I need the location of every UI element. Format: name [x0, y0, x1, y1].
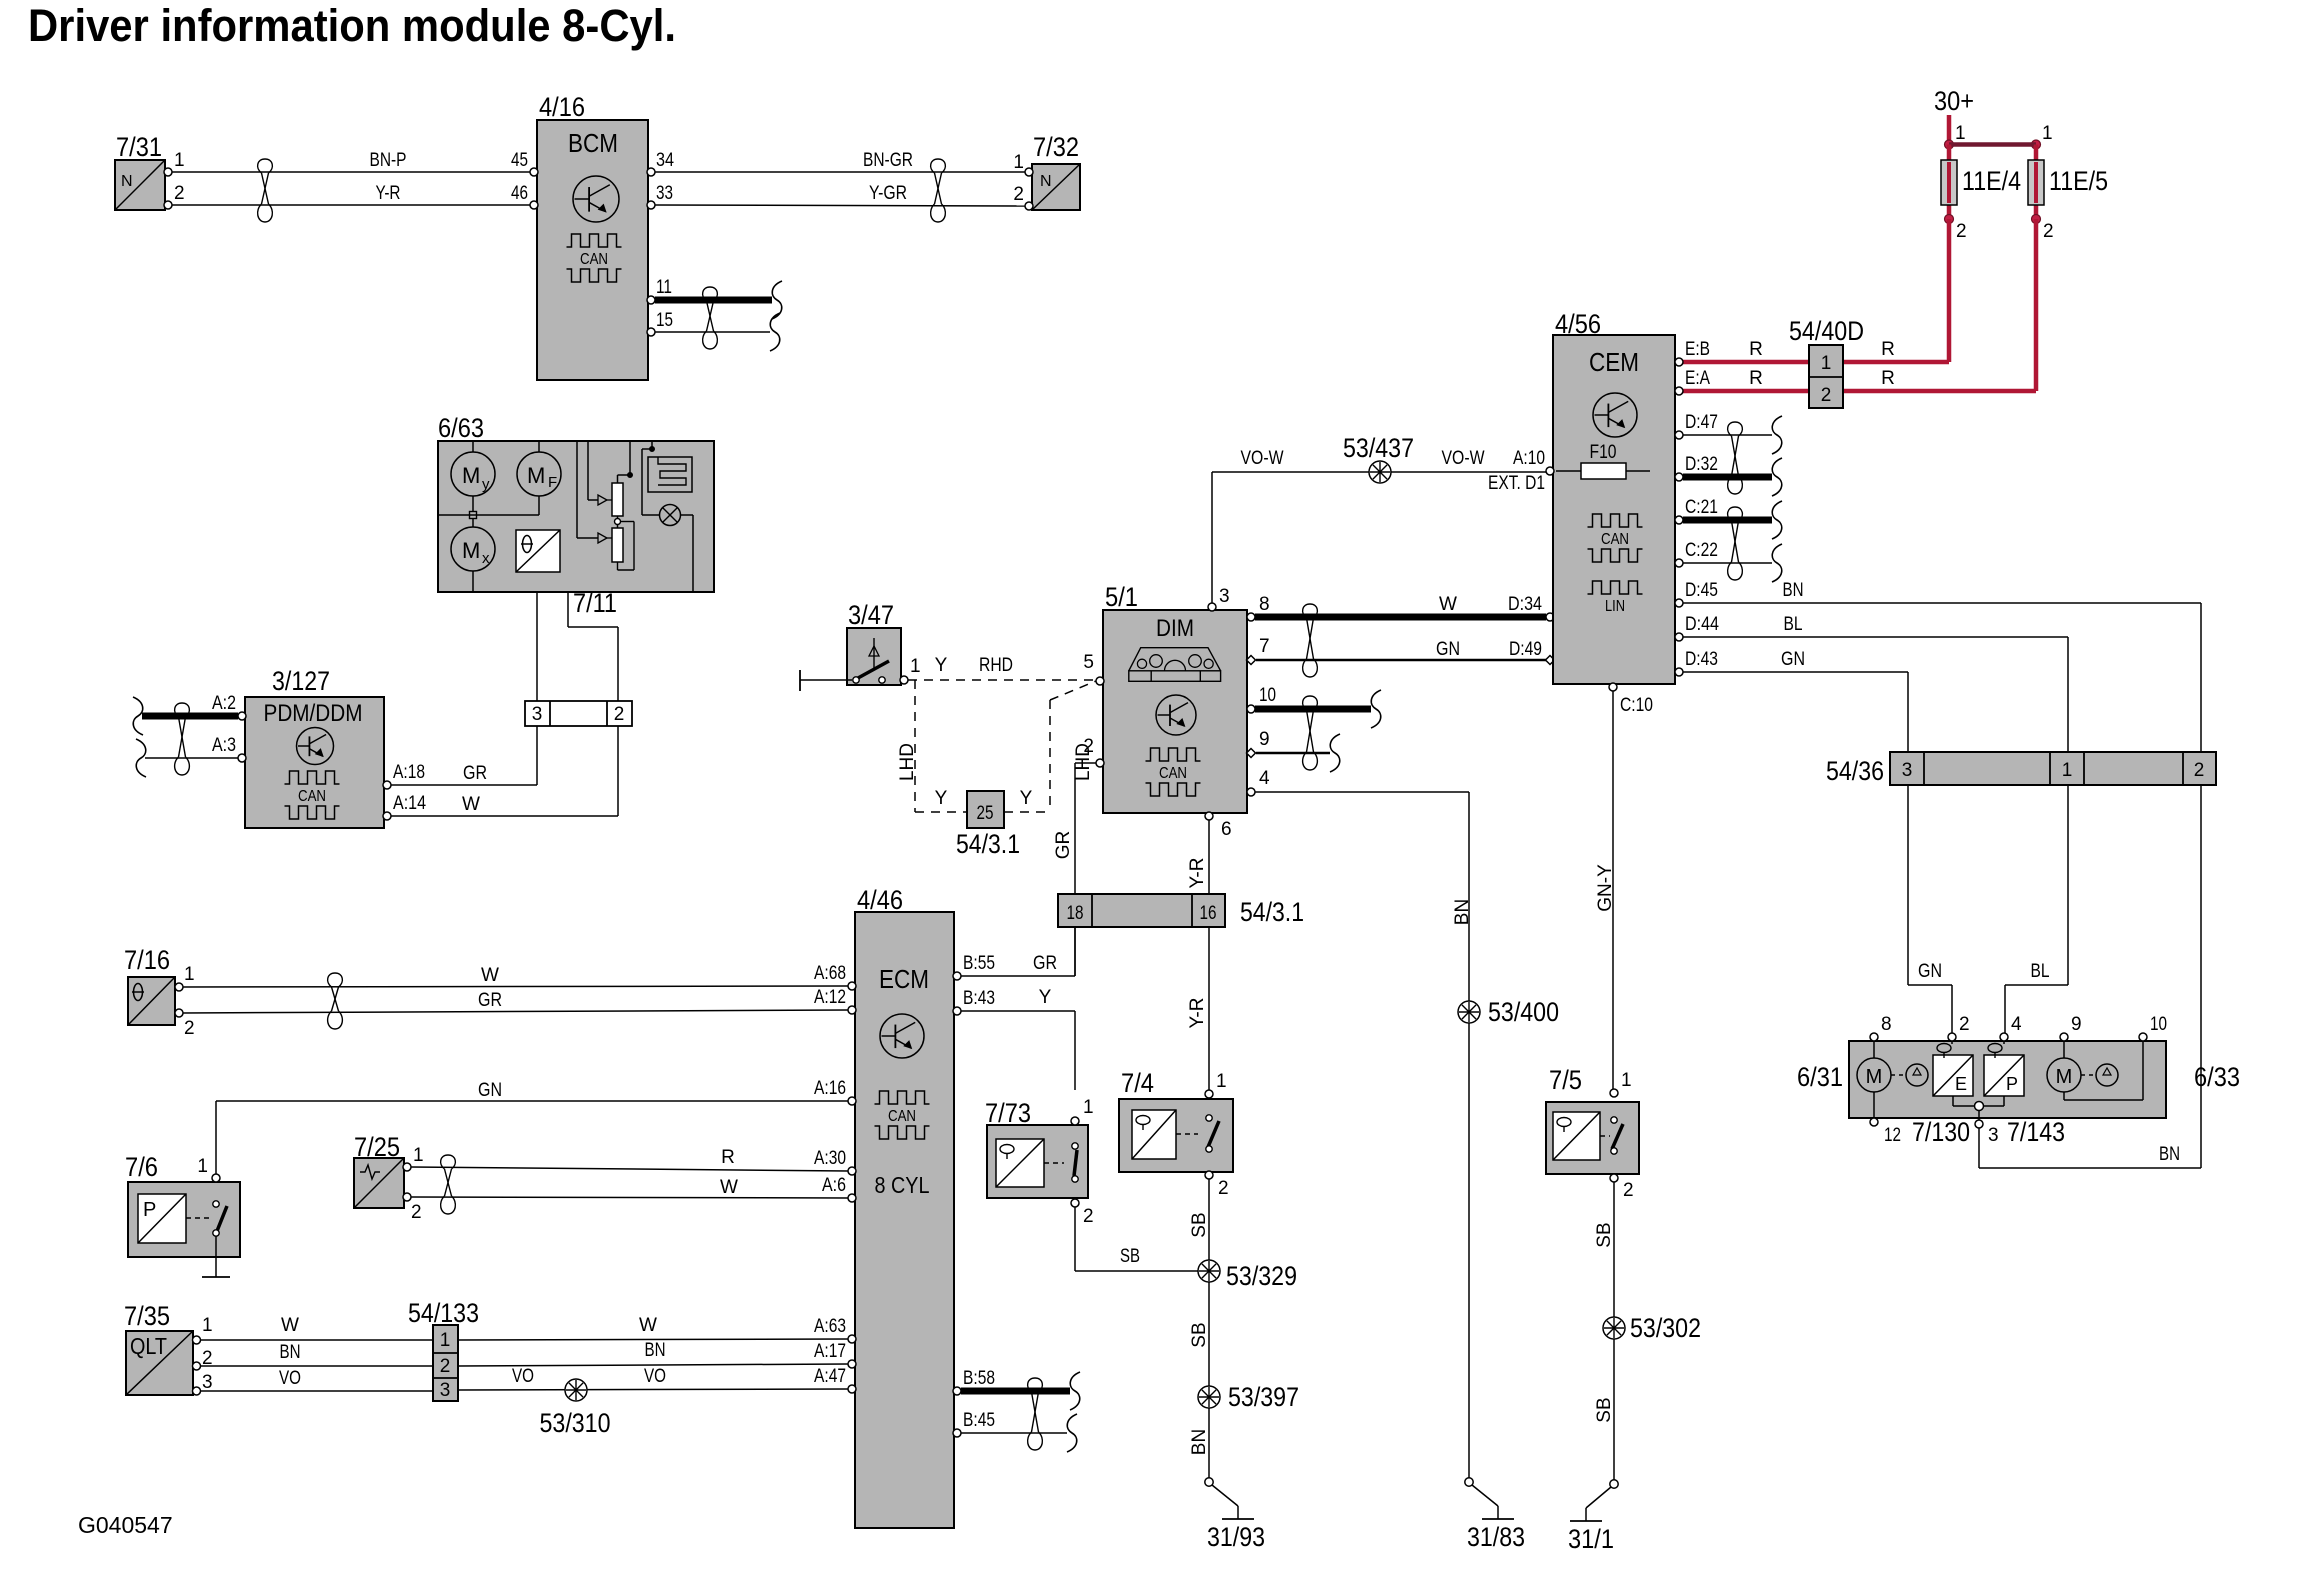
junction node: [1953, 1102, 2004, 1121]
svg-text:A:2: A:2: [212, 693, 236, 714]
wire W 7/16:1 to ECM A:68: [183, 965, 848, 987]
svg-text:D:32: D:32: [1685, 454, 1718, 475]
CEM CAN symbol: [1588, 514, 1643, 562]
svg-text:7/4: 7/4: [1121, 1068, 1154, 1098]
svg-text:5: 5: [1083, 652, 1094, 673]
svg-text:1: 1: [202, 1315, 213, 1336]
wire Y-R 7/31:2 to BCM:46: [172, 183, 530, 205]
svg-text:54/3.1: 54/3.1: [1240, 897, 1304, 927]
svg-text:2: 2: [411, 1202, 422, 1223]
svg-text:GR: GR: [1033, 953, 1057, 974]
svg-text:6/33: 6/33: [2194, 1062, 2240, 1092]
7/35 pin 3: [193, 1372, 213, 1395]
splice 53/310: [540, 1379, 611, 1438]
fuse 11E/5: [2028, 145, 2108, 220]
ECM pin B:55: [953, 953, 995, 980]
twisted pair symbol: [258, 159, 273, 222]
svg-text:W: W: [1439, 594, 1457, 615]
wire CEM C:22 CAN: [1683, 562, 1772, 564]
svg-text:R: R: [1749, 339, 1763, 360]
svg-text:BN: BN: [1783, 580, 1804, 601]
svg-text:RHD: RHD: [979, 655, 1013, 676]
svg-text:9: 9: [1259, 729, 1270, 750]
svg-text:Y: Y: [1039, 987, 1052, 1008]
wire break: [770, 313, 780, 351]
svg-text:1: 1: [1621, 1070, 1632, 1091]
BCM pin 15: [647, 310, 673, 336]
DIM dashboard icon: [1129, 648, 1221, 682]
wire R fuse 11E/4 to 54/40D:1 to CEM E:B: [1682, 219, 1949, 362]
svg-text:7/32: 7/32: [1033, 132, 1079, 162]
svg-text:2: 2: [614, 704, 625, 725]
svg-text:B:45: B:45: [963, 1410, 995, 1431]
7/16 pin 2: [175, 1009, 195, 1039]
svg-text:2: 2: [2043, 221, 2054, 242]
svg-text:31/93: 31/93: [1207, 1522, 1265, 1552]
svg-text:A:6: A:6: [822, 1175, 846, 1196]
svg-text:Y: Y: [935, 788, 948, 809]
DIM pin 5: [1083, 652, 1104, 685]
wire BCM:15 CAN bus: [655, 331, 770, 333]
DIM pin 6: [1205, 812, 1232, 840]
wire ECM B:45 CAN: [961, 1432, 1067, 1434]
svg-text:18: 18: [1067, 903, 1084, 924]
7/4 pin 1: [1205, 1071, 1227, 1098]
wire break: [1772, 501, 1782, 539]
svg-text:1: 1: [197, 1156, 208, 1177]
svg-text:M: M: [462, 538, 480, 563]
svg-text:W: W: [639, 1315, 657, 1336]
CEM pin D:32: [1675, 454, 1718, 481]
svg-text:A:10: A:10: [1513, 448, 1545, 469]
wire GR connector:3 to PDM A:18: [391, 726, 537, 785]
wire 7/11 to connector pin 2: [568, 588, 618, 701]
CEM pin C:21: [1675, 497, 1718, 524]
twisted pair symbol: [441, 1155, 456, 1214]
svg-text:GN-Y: GN-Y: [1595, 864, 1616, 912]
twisted pair symbol: [1028, 1378, 1043, 1450]
svg-text:SB: SB: [1594, 1397, 1615, 1422]
BCM pin 33: [647, 183, 673, 209]
splice 54/3.1 pin 25: [956, 791, 1020, 859]
splice 53/400: [1458, 997, 1559, 1027]
svg-text:33: 33: [656, 183, 673, 204]
svg-text:D:43: D:43: [1685, 649, 1718, 670]
6/63 internal wiring: [438, 441, 539, 592]
svg-text:15: 15: [656, 310, 673, 331]
svg-text:ECM: ECM: [879, 964, 929, 994]
7/31 pin 2: [164, 183, 185, 209]
svg-text:VO-W: VO-W: [1442, 448, 1485, 469]
twisted pair symbol: [175, 703, 190, 775]
svg-text:D:49: D:49: [1509, 639, 1542, 660]
svg-text:11E/4: 11E/4: [1962, 166, 2021, 196]
svg-text:BL: BL: [1784, 614, 1803, 635]
thermometer unit 7/11 sensor box: [516, 530, 560, 572]
svg-text:D:44: D:44: [1685, 614, 1719, 635]
svg-text:3/127: 3/127: [272, 666, 330, 696]
svg-text:BN: BN: [1189, 1429, 1210, 1455]
svg-text:11: 11: [656, 277, 672, 298]
wire break: [1772, 544, 1782, 582]
7/32 pin 2: [1013, 184, 1033, 210]
wire CEM C:21 CAN: [1683, 517, 1772, 524]
svg-text:2: 2: [1959, 1014, 1970, 1035]
6/31 pin 3: [1975, 1120, 1999, 1146]
wire Y LHD dashed right branch: [1004, 681, 1096, 812]
svg-text:2: 2: [440, 1356, 451, 1377]
svg-text:7/31: 7/31: [116, 132, 162, 162]
svg-text:30+: 30+: [1934, 86, 1974, 116]
battery feed 30+: [1934, 86, 1974, 144]
svg-text:Y: Y: [1020, 788, 1033, 809]
svg-text:A:30: A:30: [814, 1148, 846, 1169]
svg-text:1: 1: [174, 150, 185, 171]
svg-text:2: 2: [1083, 736, 1094, 757]
svg-text:2: 2: [1013, 184, 1024, 205]
svg-text:6: 6: [1221, 819, 1232, 840]
splice 53/329: [1198, 1260, 1297, 1291]
ECM pin A:17: [814, 1341, 856, 1368]
level sensor P 7/143: [1984, 1041, 2024, 1106]
svg-text:B:55: B:55: [963, 953, 995, 974]
wire break: [1772, 416, 1782, 454]
svg-text:1: 1: [184, 964, 195, 985]
twisted pair symbol: [1728, 422, 1743, 494]
pressure switch 7/6: [125, 1152, 240, 1277]
wire GR 7/16:2 to ECM A:12: [183, 990, 848, 1013]
svg-text:53/437: 53/437: [1343, 433, 1414, 463]
twisted pair symbol: [1303, 604, 1318, 677]
svg-text:F10: F10: [1590, 442, 1617, 463]
wire SB 7/4:2 to ground 31/93: [1189, 1179, 1210, 1478]
svg-text:Y-GR: Y-GR: [869, 183, 907, 204]
svg-text:7/16: 7/16: [124, 945, 170, 975]
motor MF: [517, 452, 561, 496]
svg-text:2: 2: [1623, 1180, 1634, 1201]
svg-text:6/63: 6/63: [438, 413, 484, 443]
svg-text:4: 4: [2011, 1014, 2022, 1035]
level sensor E 7/130: [1933, 1041, 1973, 1106]
CEM pin D:44: [1675, 614, 1719, 641]
wire GN DIM:7 to CEM D:49: [1256, 639, 1546, 660]
wire BN-GR BCM:34 to 7/32:1: [655, 150, 1025, 172]
wire BN-P 7/31:1 to BCM:45: [172, 150, 530, 172]
svg-text:CAN: CAN: [1159, 765, 1187, 782]
svg-text:7/6: 7/6: [125, 1152, 158, 1182]
svg-text:1: 1: [1083, 1097, 1094, 1118]
control module BCM 4/16: [537, 92, 648, 380]
motor My: [451, 452, 495, 496]
CEM pin A:10: [1488, 448, 1554, 494]
ground 31/93: [1205, 1478, 1265, 1552]
svg-text:CAN: CAN: [298, 788, 326, 805]
ECM pin B:58: [953, 1368, 995, 1395]
wire W DIM:8 to CEM D:34: [1255, 594, 1546, 617]
CEM fuse F10: [1556, 442, 1650, 479]
BCM pin 46: [511, 183, 538, 209]
svg-text:CEM: CEM: [1589, 347, 1639, 377]
PDM pin A:14: [383, 793, 426, 820]
svg-text:2: 2: [1083, 1206, 1094, 1227]
svg-text:A:14: A:14: [393, 793, 426, 814]
svg-text:B:58: B:58: [963, 1368, 995, 1389]
svg-text:E: E: [1955, 1074, 1967, 1094]
svg-text:G040547: G040547: [78, 1512, 173, 1538]
svg-text:W: W: [720, 1177, 738, 1198]
switch 7/4: [1119, 1068, 1233, 1172]
CEM pin E:A: [1675, 368, 1710, 395]
impulse sender 7/25: [354, 1132, 404, 1208]
svg-text:1: 1: [440, 1330, 451, 1351]
wire DIM:10 CAN: [1255, 706, 1371, 713]
svg-text:LHD: LHD: [897, 743, 918, 781]
inline connector 3|2: [525, 701, 632, 726]
svg-text:R: R: [1749, 368, 1763, 389]
wire Y RHD dashed 3/47:1 to DIM:5: [908, 655, 1096, 680]
ECM pin A:47: [814, 1366, 856, 1393]
svg-text:4: 4: [1259, 768, 1270, 789]
7/4 pin 2: [1205, 1171, 1229, 1199]
svg-text:2: 2: [174, 183, 185, 204]
connector 7/32: [1032, 132, 1080, 210]
svg-text:2: 2: [1821, 385, 1832, 406]
svg-text:BCM: BCM: [568, 128, 618, 158]
wire SB 7/73:2 to splice 53/329: [1075, 1207, 1198, 1271]
ECM pin A:16: [814, 1078, 856, 1105]
twisted pair symbol: [1303, 696, 1318, 770]
CEM pin D:45: [1675, 580, 1718, 607]
wire break: [1772, 458, 1782, 496]
svg-text:R: R: [1881, 368, 1895, 389]
svg-text:LIN: LIN: [1605, 598, 1625, 615]
CEM pin D:47: [1675, 412, 1718, 439]
svg-text:C:10: C:10: [1620, 695, 1653, 716]
svg-text:E:A: E:A: [1685, 368, 1710, 389]
wire break: [1070, 1372, 1080, 1410]
svg-text:BN: BN: [2159, 1144, 2180, 1165]
wiper motor module 6/63: [438, 413, 714, 592]
svg-text:P: P: [143, 1199, 156, 1221]
svg-text:2: 2: [2194, 760, 2205, 781]
7/25 pin 2: [403, 1193, 422, 1223]
ground 7/6: [202, 1276, 230, 1278]
svg-text:3: 3: [1902, 760, 1913, 781]
svg-text:R: R: [721, 1147, 735, 1168]
svg-text:11E/5: 11E/5: [2049, 166, 2108, 196]
svg-text:D:47: D:47: [1685, 412, 1718, 433]
wire VO 7/35:3 to ECM A:47: [200, 1366, 848, 1391]
svg-text:VO: VO: [512, 1366, 534, 1387]
6/33 pin 10: [2139, 1014, 2167, 1041]
svg-text:8: 8: [1259, 594, 1270, 615]
svg-text:N: N: [1040, 173, 1052, 190]
svg-text:GR: GR: [463, 763, 487, 784]
CEM pin C:22: [1675, 540, 1718, 567]
svg-text:5/1: 5/1: [1105, 582, 1138, 612]
svg-text:Y: Y: [935, 655, 948, 676]
svg-text:CAN: CAN: [580, 251, 608, 268]
svg-text:C:21: C:21: [1685, 497, 1718, 518]
wire break: [133, 697, 143, 735]
wire Y ECM B:43 to 7/73:1: [961, 987, 1075, 1090]
wire R 7/25:1 to ECM A:30: [411, 1147, 848, 1171]
svg-text:P: P: [2006, 1074, 2018, 1094]
ECM pin A:30: [814, 1148, 856, 1175]
7/32 pin 1: [1013, 152, 1033, 176]
svg-text:BN: BN: [280, 1342, 301, 1363]
svg-text:25: 25: [977, 803, 994, 824]
DIM pin 2: [1083, 736, 1104, 767]
ECM pin A:68: [814, 963, 856, 990]
svg-text:C:22: C:22: [1685, 540, 1718, 561]
6/63 lamp: [642, 505, 693, 593]
svg-text:10: 10: [1259, 685, 1276, 706]
svg-text:x: x: [482, 550, 490, 567]
wire break: [1371, 690, 1381, 728]
twisted pair symbol: [328, 973, 343, 1029]
svg-text:M: M: [1866, 1066, 1883, 1088]
7/25 pin 1: [403, 1145, 424, 1171]
wire CAN-H to PDM A:2: [142, 713, 238, 720]
inline connector 54/40D: [1789, 316, 1864, 408]
svg-text:GR: GR: [478, 990, 502, 1011]
svg-text:3: 3: [202, 1372, 213, 1393]
svg-text:VO: VO: [644, 1366, 666, 1387]
motor Mx: [451, 527, 495, 571]
wire BL CEM D:44 to 6/31 via 54/36:1: [1683, 614, 2068, 1033]
splice 53/302: [1603, 1313, 1701, 1343]
wire CEM D:47: [1683, 434, 1772, 436]
inline connector 54/133: [408, 1298, 479, 1401]
svg-text:BN: BN: [1452, 899, 1473, 925]
svg-text:7/35: 7/35: [124, 1301, 170, 1331]
svg-text:4/16: 4/16: [539, 92, 585, 122]
6/33 pin 9: [2060, 1014, 2082, 1041]
CEM pin C:10: [1609, 683, 1653, 716]
svg-text:7/5: 7/5: [1549, 1065, 1582, 1095]
svg-text:A:68: A:68: [814, 963, 846, 984]
PDM pin A:3: [212, 735, 246, 762]
node 2 fuse 11E/4: [1945, 215, 1967, 243]
DIM transistor: [1156, 695, 1196, 735]
wire break: [1330, 734, 1340, 772]
BCM pin 45: [511, 150, 538, 176]
BCM pin 34: [647, 150, 674, 176]
wire Y-R DIM:6 to 7/4:1: [1187, 820, 1209, 1092]
fuse 11E/4: [1941, 145, 2021, 220]
svg-text:3/47: 3/47: [848, 600, 894, 630]
7/6 pin 1: [197, 1156, 220, 1182]
motor M 6/33: [2047, 1041, 2143, 1100]
PDM pin A:18: [383, 762, 425, 789]
svg-text:Y-R: Y-R: [1187, 858, 1208, 889]
DIM CAN symbol: [1146, 748, 1201, 796]
wire BN DIM:4 to ground 31/83: [1255, 792, 1473, 1478]
svg-text:EXT. D1: EXT. D1: [1488, 473, 1545, 494]
svg-text:A:63: A:63: [814, 1316, 846, 1337]
washer pump module 6/31 6/33: [1797, 1041, 2240, 1118]
motor M 6/31: [1857, 1041, 1928, 1120]
svg-text:53/397: 53/397: [1228, 1382, 1299, 1412]
inline connector 54/3.1 pins 18/16: [1058, 894, 1304, 927]
7/5 pin 2: [1610, 1174, 1634, 1201]
6/63 resistor network: [577, 441, 634, 570]
svg-text:2: 2: [1218, 1178, 1229, 1199]
wire 6/63 to connector pin 3: [536, 592, 538, 701]
ECM pin A:63: [814, 1316, 856, 1343]
DIM pin 4: [1247, 768, 1270, 796]
svg-text:54/133: 54/133: [408, 1298, 479, 1328]
svg-text:E:B: E:B: [1685, 339, 1710, 360]
wire W 7/25:2 to ECM A:6: [411, 1177, 848, 1198]
ECM pin A:6: [822, 1175, 856, 1202]
svg-text:8: 8: [1881, 1014, 1892, 1035]
wire GN-Y CEM C:10 to 7/5:1: [1595, 691, 1616, 1090]
svg-text:SB: SB: [1189, 1322, 1210, 1347]
svg-text:GR: GR: [1053, 831, 1074, 860]
svg-text:BN-P: BN-P: [370, 150, 407, 171]
svg-text:12: 12: [1884, 1125, 1901, 1146]
7/73 pin 1: [1071, 1097, 1094, 1125]
wire GN 7/6:1 to ECM A:16: [216, 1080, 848, 1176]
control module PDM/DDM 3/127: [245, 666, 384, 828]
svg-text:8 CYL: 8 CYL: [875, 1172, 930, 1198]
ECM pin B:43: [953, 988, 995, 1015]
svg-text:B:43: B:43: [963, 988, 995, 1009]
svg-text:4/46: 4/46: [857, 885, 903, 915]
svg-text:54/36: 54/36: [1826, 756, 1884, 786]
svg-text:1: 1: [1821, 353, 1832, 374]
svg-text:34: 34: [656, 150, 674, 171]
7/35 pin 2: [193, 1348, 213, 1370]
svg-text:y: y: [482, 476, 490, 493]
svg-text:53/302: 53/302: [1630, 1313, 1701, 1343]
wire SB 7/5:2 to ground 31/1: [1594, 1182, 1615, 1480]
svg-text:SB: SB: [1189, 1212, 1210, 1237]
svg-text:SB: SB: [1594, 1222, 1615, 1247]
svg-text:1: 1: [2062, 760, 2073, 781]
switch 7/5: [1546, 1065, 1639, 1174]
7/5 pin 1: [1610, 1070, 1632, 1097]
svg-text:N: N: [121, 173, 133, 190]
ground 31/1: [1568, 1480, 1618, 1554]
svg-text:54/40D: 54/40D: [1789, 316, 1864, 346]
svg-text:16: 16: [1200, 903, 1217, 924]
svg-text:M: M: [2056, 1066, 2073, 1088]
svg-text:45: 45: [511, 150, 528, 171]
temperature sensor 7/16: [124, 945, 175, 1025]
svg-text:46: 46: [511, 183, 528, 204]
svg-text:R: R: [1881, 339, 1895, 360]
node 1 fuse 11E/4: [1945, 123, 1966, 149]
svg-text:CAN: CAN: [888, 1108, 916, 1125]
control module CEM 4/56: [1553, 309, 1675, 684]
svg-text:1: 1: [2042, 123, 2053, 144]
6/31 pin 12: [1870, 1118, 1901, 1146]
wire BCM:11 CAN bus: [655, 297, 772, 304]
svg-text:F: F: [548, 474, 557, 491]
wire W connector:2 to PDM A:14: [391, 726, 618, 816]
svg-text:7: 7: [1259, 636, 1270, 657]
svg-text:A:12: A:12: [814, 987, 846, 1008]
wire BN CEM D:45 to 6/33 via 54/36:2: [1683, 580, 2201, 1168]
3/47 pin 1: [900, 656, 921, 684]
svg-text:54/3.1: 54/3.1: [956, 829, 1020, 859]
DIM pin 3: [1208, 586, 1230, 611]
svg-text:BN: BN: [645, 1340, 666, 1361]
control module ECM 4/46: [855, 885, 954, 1528]
